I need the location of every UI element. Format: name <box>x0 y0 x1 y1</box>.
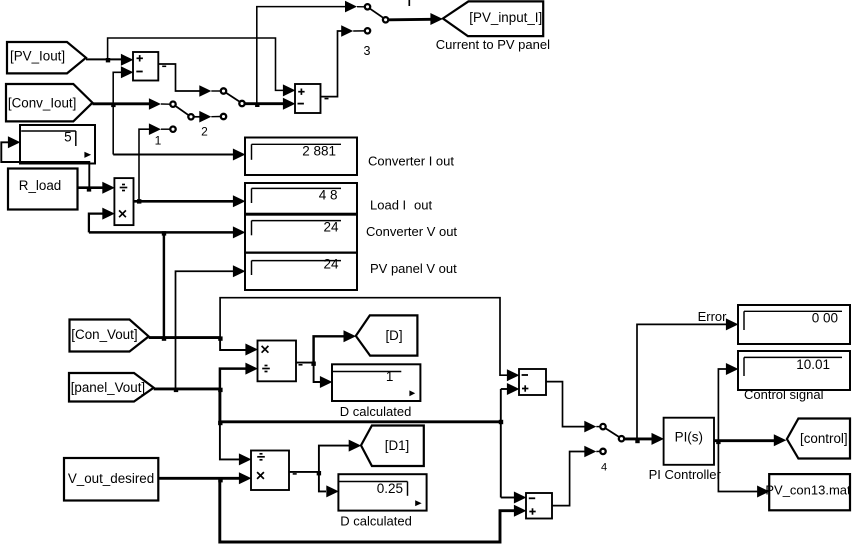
svg-text:PI(s): PI(s) <box>675 430 703 445</box>
svg-text:5: 5 <box>64 129 72 144</box>
node J6 on SW2 output wire <box>255 103 259 107</box>
node J17 on PI output wire <box>716 440 720 444</box>
node J9 on panel_Vout wire <box>174 388 178 392</box>
svg-text:[panel_Vout]: [panel_Vout] <box>71 380 145 395</box>
switch SW3 lever <box>370 9 383 18</box>
arrow into Product1 in1 <box>245 344 258 356</box>
node J13 on V_out_desired wire <box>218 478 222 482</box>
svg-text:1: 1 <box>386 369 394 384</box>
switch SW4 output port <box>619 436 624 441</box>
switch SW1 input arrow <box>149 123 161 135</box>
wire Conv_Iout output <box>93 102 152 105</box>
switch SW4 input port 1 <box>600 424 605 429</box>
wire PI output to Goto control <box>714 439 775 442</box>
arrow into Sum2 in1 <box>283 84 296 96</box>
wire J3 up and around to Display 5 input <box>1 142 89 189</box>
arrow into Goto D1 <box>349 440 362 452</box>
svg-text:10.01: 10.01 <box>796 357 830 372</box>
svg-text:R_load: R_load <box>19 178 61 193</box>
node J15 on Product2 output <box>317 471 321 475</box>
arrow into Goto PV_input_I <box>430 13 443 25</box>
wire J5 down to Con_Vout wire <box>163 232 165 337</box>
arrow into Product2 in2 <box>239 472 252 484</box>
wire J13 down around bottom to Sum4 in2 <box>220 478 515 542</box>
svg-text:[Con_Vout]: [Con_Vout] <box>71 327 137 342</box>
svg-text:Converter I out: Converter I out <box>368 154 454 169</box>
wire J10 up to Product1 in2 <box>220 369 246 389</box>
Constant block R_load <box>8 169 78 210</box>
wire Con_Vout output <box>149 336 221 339</box>
arrow into Control signal display <box>726 363 739 375</box>
Goto tag D <box>356 315 418 355</box>
wire V_out_desired output to Product2 in2 <box>158 477 240 480</box>
node J4 on Divide1 output <box>137 199 141 203</box>
From tag PV_Iout <box>7 42 86 73</box>
Display block PV panel V out <box>245 253 357 290</box>
wire panel_Vout branch up to Display PV panel V out <box>176 271 234 389</box>
Display block D calculated 2 <box>338 474 426 510</box>
wire vertical to Sum3 in2 and Sum4 in1 <box>500 389 502 498</box>
arrow into Sum3 in2 <box>507 383 520 395</box>
Display block Converter I out <box>245 138 357 176</box>
node J14 on Product1 output <box>311 362 315 366</box>
PI Controller block PI(s) <box>664 418 714 465</box>
switch SW3 input port 2 <box>365 28 370 33</box>
arrow into Display Converter V out <box>233 226 246 238</box>
arrow into Product2 in1 <box>239 453 252 465</box>
svg-text:PI Controller: PI Controller <box>649 467 722 482</box>
wire J1 up across top to Sum2 in1 <box>108 38 284 90</box>
wire J16 up to Error display <box>637 324 726 439</box>
To File block PV_con13.mat <box>769 474 850 510</box>
Product block Product2 <box>251 451 289 491</box>
switch SW2 input arrow 2 <box>199 111 211 123</box>
node J2 on Conv_Iout wire <box>111 103 115 107</box>
Divide block Divide1 <box>114 178 133 225</box>
svg-text:Load I: Load I <box>370 198 406 213</box>
svg-text:Control signal: Control signal <box>744 387 824 402</box>
svg-text:D calculated: D calculated <box>340 514 412 529</box>
wire J17 down to To File PV_con13.mat <box>718 441 757 492</box>
switch SW2 input arrow 1 <box>199 85 211 97</box>
node J1 branch on PV_Iout wire <box>106 58 110 62</box>
wire Sum3 output to switch SW4 in1 <box>546 382 585 427</box>
svg-text:PV panel V out: PV panel V out <box>370 261 457 276</box>
node J5 on row3 <box>162 231 166 235</box>
arrow into Error display <box>726 318 739 330</box>
wire PV_Iout to Sum1 in1 <box>86 58 122 60</box>
Sum block Sum2 <box>295 84 321 113</box>
wire Sum2 output to switch SW3 in2 <box>321 31 343 97</box>
arrow into Display 0.25 <box>326 485 339 497</box>
switch SW3 input port 1 <box>365 4 370 9</box>
switch SW2b output port <box>188 114 193 119</box>
From tag Con_Vout <box>70 320 149 352</box>
wire J17 up to Control signal display <box>718 369 726 441</box>
Constant block V_out_desired <box>64 458 158 501</box>
From tag Conv_Iout <box>6 84 93 121</box>
svg-text:[D]: [D] <box>385 328 402 343</box>
svg-text:4: 4 <box>601 462 607 474</box>
wire Sum4 output to switch SW4 in2 <box>552 452 585 506</box>
switch SW2b input port <box>170 102 175 107</box>
wire J2 down to Display Converter I out <box>113 153 233 155</box>
node J12 feeder meets right vertical <box>499 420 503 424</box>
wire row Con_Vout to Display Converter V out <box>89 231 234 233</box>
arrow into Display Converter I out <box>233 149 246 161</box>
svg-text:out: out <box>414 198 432 213</box>
Product block Product1 <box>258 341 297 382</box>
wire Product2 output <box>289 471 319 473</box>
Display block Error <box>738 305 850 344</box>
Goto tag D1 <box>361 426 424 467</box>
wire J8 down to Product1 in1 <box>220 338 246 350</box>
svg-text:Error: Error <box>698 309 728 324</box>
wire J10 down and right to Sum3 in2 / Sum4 in1 feeder <box>220 389 501 422</box>
wire Divide1 output to Display Load I out <box>134 200 234 203</box>
switch SW4 input arrow 2 <box>584 446 596 458</box>
switch SW2 input port 2 <box>221 114 226 119</box>
svg-text:Converter V out: Converter V out <box>366 224 457 239</box>
svg-text:V_out_desired: V_out_desired <box>68 471 154 486</box>
switch SW3 output port <box>383 17 388 22</box>
wire row3 left end up to Divide1 in2 <box>89 214 103 233</box>
svg-text:[control]: [control] <box>800 431 848 446</box>
switch SW2b lever <box>176 106 189 115</box>
svg-text:[PV_Iout]: [PV_Iout] <box>10 49 65 64</box>
arrow into Display D calculated 1 <box>320 376 333 388</box>
wire switch SW3 output to Goto PV_input_I <box>389 18 431 21</box>
wire switch SW2 output to Sum2 in2 <box>245 102 283 105</box>
wire J4 up to switch SW1 <box>139 129 150 201</box>
svg-text:[Conv_Iout]: [Conv_Iout] <box>8 96 76 111</box>
wire R_load output <box>78 186 104 189</box>
arrow into Goto control <box>774 434 787 446</box>
switch SW2 lever <box>226 93 240 102</box>
svg-text:1: 1 <box>155 133 162 147</box>
Sum block Sum3 <box>519 369 546 395</box>
svg-text:PV_con13.mat: PV_con13.mat <box>765 482 851 497</box>
wire J14 down to Display D calculated 1 <box>314 363 321 382</box>
svg-text:[PV_input_I]: [PV_input_I] <box>469 10 542 25</box>
arrow into Sum4 in1 <box>514 492 527 504</box>
wire J15 down to Display 0.25 <box>319 472 326 492</box>
wire panel_Vout output <box>154 387 221 390</box>
arrow into To File block <box>757 486 770 498</box>
switch SW2b input arrow <box>149 98 161 110</box>
arrow into Display 5 <box>8 136 21 148</box>
arrow into Divide1 in2 <box>102 208 115 220</box>
node J10 on panel_Vout wire <box>218 388 222 392</box>
arrow into Product1 in2 <box>245 363 258 375</box>
Display block constant 5 <box>20 125 95 164</box>
switch SW4 lever <box>606 428 620 437</box>
svg-text:D calculated: D calculated <box>340 404 412 419</box>
Goto tag control <box>787 419 850 459</box>
switch SW2 input port 1 <box>221 88 226 93</box>
wire switch SW4 output to PI Controller <box>625 437 652 440</box>
wire J11 down to Product2 in1 <box>220 422 240 460</box>
node J8 on Con_Vout wire <box>218 336 222 340</box>
wire J14 up to Goto D <box>314 336 345 362</box>
arrow into Display Load I out <box>233 195 246 207</box>
wire SW2b output <box>194 116 200 118</box>
svg-text:24: 24 <box>323 257 339 272</box>
svg-text:Current to PV panel: Current to PV panel <box>436 37 550 52</box>
switch SW1 input port <box>170 127 175 132</box>
From tag panel_Vout <box>69 373 154 402</box>
arrow into Sum2 in2 <box>283 98 296 110</box>
arrow into Divide1 in1 <box>102 182 115 194</box>
wire J15 up to Goto D1 <box>319 446 350 472</box>
wire Product1 output <box>296 362 314 364</box>
arrow into Sum1 in1 <box>121 54 133 66</box>
switch SW4 input port 2 <box>600 449 605 454</box>
svg-text:2 881: 2 881 <box>302 144 336 159</box>
arrow into PI Controller <box>652 433 665 445</box>
svg-text:0 00: 0 00 <box>812 311 838 326</box>
node J7 on Con_Vout wire <box>162 336 166 340</box>
svg-text:4 8: 4 8 <box>319 187 338 202</box>
svg-text:[D1]: [D1] <box>385 438 410 453</box>
svg-text:2: 2 <box>201 125 208 139</box>
arrow into Sum4 in2 <box>514 505 527 517</box>
node J11 feeder branch to Product2 in1 <box>218 421 222 425</box>
arrow into Display PV panel V out <box>233 265 246 277</box>
arrow into Sum3 in1 <box>507 369 520 381</box>
Goto tag PV_input_I <box>443 1 543 36</box>
Sum block Sum1 <box>133 52 158 81</box>
svg-text:24: 24 <box>323 220 339 235</box>
Display block D calculated 1 <box>332 364 420 401</box>
arrow into Goto D <box>344 330 357 342</box>
svg-text:3: 3 <box>364 44 371 58</box>
arrow into Sum1 in2 <box>121 66 133 78</box>
switch SW2 output port <box>239 101 244 106</box>
wire connector segments at switch ports <box>357 6 364 8</box>
wire J8 up across to Sum3 in1 <box>220 298 507 376</box>
svg-text:0.25: 0.25 <box>377 481 403 496</box>
Display block Converter V out <box>245 215 357 253</box>
Display block Load I out <box>245 183 357 214</box>
switch SW3 input arrow 2 <box>341 25 353 37</box>
Sum block Sum4 <box>526 493 552 519</box>
switch SW4 input arrow 1 <box>584 421 596 433</box>
node J16 on SW4 output wire <box>635 439 639 443</box>
Display block Control signal <box>738 351 850 390</box>
wire Sum1 output to switch SW2 in1 <box>158 64 200 91</box>
tick mark above SW3 <box>408 0 410 6</box>
wire J2 up to Sum1 in2 <box>113 72 121 154</box>
node J3 on R_load wire <box>87 187 91 191</box>
switch SW3 input arrow 1 <box>345 1 357 13</box>
wire J6 up to switch SW3 in1 <box>257 7 346 104</box>
